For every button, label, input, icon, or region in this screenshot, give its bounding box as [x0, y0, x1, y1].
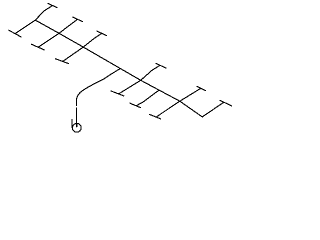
feed line lower section [76, 108, 78, 127]
element E5 [157, 89, 201, 117]
element E4b (half element) [136, 90, 158, 105]
cap E1 upper tip [48, 3, 57, 7]
boom [35, 20, 202, 117]
element E1 [15, 6, 53, 34]
cap E2 upper tip [73, 17, 83, 21]
cap E1 lower tip [9, 30, 21, 37]
element E2 [39, 19, 78, 47]
cap E3 upper tip [97, 31, 107, 35]
element E6 [202, 102, 223, 117]
feed line upper section [76, 68, 120, 105]
cap E3 lower tip [55, 59, 68, 64]
cap E2 lower tip [31, 44, 44, 50]
connector circle [72, 123, 81, 132]
element E4 [119, 66, 160, 95]
cap E4 upper tip [156, 63, 166, 68]
cap E4 lower tip [111, 91, 124, 96]
cap E4b tip [130, 103, 141, 108]
cap E5 upper tip [197, 86, 206, 90]
connector bar [71, 120, 73, 128]
cap E6 upper tip [220, 100, 232, 105]
element E3 [63, 33, 102, 61]
cap E5 lower tip [149, 114, 160, 118]
